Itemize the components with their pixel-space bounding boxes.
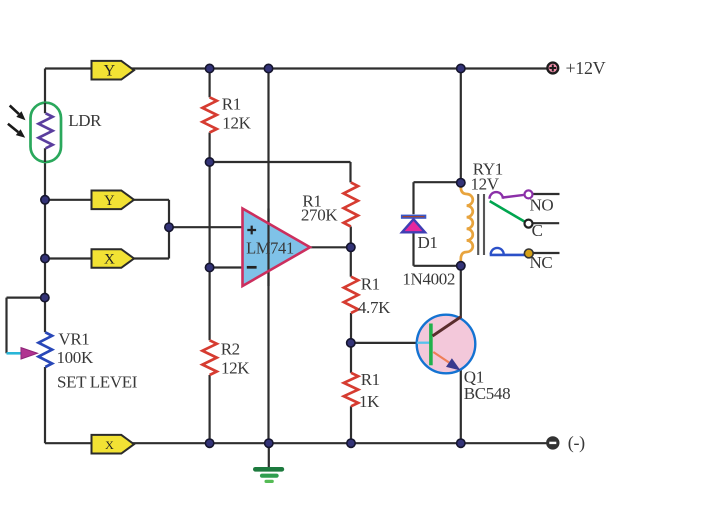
svg-text:D1: D1 — [418, 233, 438, 252]
svg-text:NC: NC — [530, 253, 553, 272]
svg-text:R1: R1 — [361, 370, 380, 389]
svg-text:SET LEVEI: SET LEVEI — [57, 373, 138, 392]
svg-text:R1: R1 — [361, 274, 380, 293]
svg-text:12K: 12K — [221, 359, 250, 378]
svg-text:X: X — [104, 252, 115, 268]
svg-text:Y: Y — [104, 63, 116, 80]
svg-text:BC548: BC548 — [464, 384, 510, 403]
svg-text:270K: 270K — [301, 206, 338, 225]
svg-text:NO: NO — [530, 195, 554, 214]
svg-text:1N4002: 1N4002 — [402, 270, 455, 289]
svg-text:(-): (-) — [568, 432, 585, 453]
svg-text:C: C — [532, 221, 543, 240]
svg-text:+12V: +12V — [566, 58, 606, 78]
svg-text:100K: 100K — [57, 348, 94, 367]
svg-text:Y: Y — [104, 193, 115, 209]
svg-text:LM741: LM741 — [246, 238, 294, 257]
svg-text:12K: 12K — [222, 114, 251, 133]
svg-text:LDR: LDR — [68, 111, 102, 130]
svg-text:R2: R2 — [221, 340, 240, 359]
svg-text:VR1: VR1 — [58, 330, 89, 349]
svg-text:R1: R1 — [222, 94, 241, 113]
svg-text:4.7K: 4.7K — [358, 298, 391, 317]
svg-text:12V: 12V — [471, 175, 500, 194]
svg-text:X: X — [105, 438, 114, 452]
svg-text:1K: 1K — [359, 392, 380, 411]
